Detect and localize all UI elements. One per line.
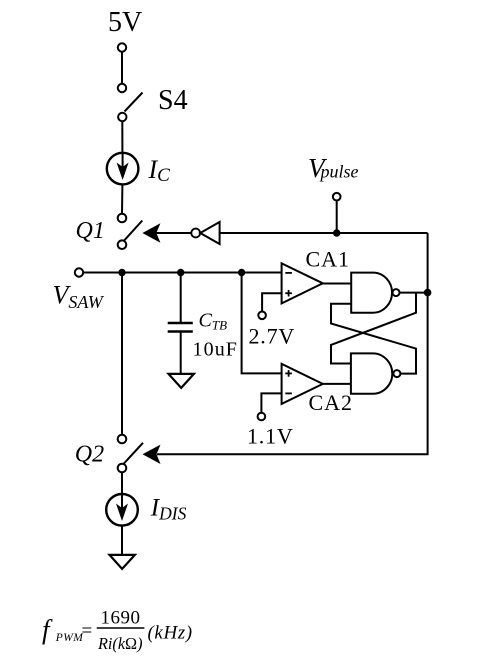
wire VSAW horizontal — [83, 272, 281, 274]
wire CA1 out to NAND1 — [323, 283, 351, 285]
svg-text:Q2: Q2 — [75, 442, 104, 468]
comparator CA2 — [282, 364, 323, 404]
svg-text:pulse: pulse — [319, 162, 359, 182]
junction at CA2 branch — [238, 269, 245, 276]
wire inverter to Vpulse net — [220, 232, 428, 234]
ground capacitor — [169, 374, 194, 388]
terminal 2.7V — [258, 312, 266, 320]
wire crosscouple N2out to N1 bottom input — [331, 304, 416, 374]
wire 5V to S4 — [121, 52, 123, 84]
wire 1.1V to CA2 minus — [261, 393, 281, 412]
Q1 control arrow — [142, 223, 191, 242]
wire NAND1 out — [400, 292, 428, 294]
ground main — [110, 555, 135, 569]
junction latch output — [424, 289, 432, 297]
switch Q2 — [118, 435, 143, 473]
wire Vpulse terminal — [336, 201, 338, 234]
inverter U1 — [191, 222, 219, 244]
comparator CA1 — [282, 263, 323, 303]
svg-text:CA2: CA2 — [309, 390, 354, 415]
switch S4 — [118, 84, 143, 121]
wire CA2 out to NAND2 — [323, 383, 351, 385]
svg-text:1690: 1690 — [101, 608, 141, 629]
nand gate N2 — [351, 353, 401, 393]
wire crosscouple N1out to N2 top input — [331, 293, 416, 364]
current source IC — [107, 153, 139, 185]
svg-text:5V: 5V — [108, 7, 142, 38]
formula fPWM — [42, 608, 193, 654]
wire Q2 to IDIS — [121, 472, 123, 494]
svg-text:10uF: 10uF — [193, 339, 239, 361]
terminal 1.1V — [258, 413, 266, 421]
junction at capacitor — [177, 269, 184, 276]
svg-text:Ri(kΩ): Ri(kΩ) — [97, 634, 143, 653]
terminal VSAW — [75, 268, 83, 276]
junction Vpulse — [333, 229, 340, 236]
wire IDIS to ground — [121, 526, 123, 555]
terminal Vpulse — [333, 193, 341, 201]
svg-text:PWM: PWM — [55, 632, 84, 644]
wire 2.7V to CA1 plus — [262, 293, 282, 311]
fraction bar — [97, 627, 145, 629]
svg-text:(kHz): (kHz) — [148, 623, 193, 644]
svg-text:2.7V: 2.7V — [249, 324, 296, 349]
Q2 control arrow — [143, 445, 161, 464]
wire right vertical feedback — [157, 233, 428, 454]
svg-text:CA1: CA1 — [306, 247, 351, 272]
svg-text:=: = — [82, 621, 93, 642]
nand gate N1 — [351, 273, 399, 313]
junction at Q1/Q2 column — [118, 269, 125, 276]
svg-text:1.1V: 1.1V — [247, 424, 294, 449]
capacitor CTB — [168, 273, 193, 374]
wire S4 to IC — [121, 121, 123, 152]
wire IC to Q1 — [121, 185, 123, 214]
current source IDIS — [106, 494, 138, 526]
svg-text:Q1: Q1 — [76, 218, 105, 244]
switch Q1 — [118, 214, 143, 249]
wire VSAW branch to CA2 — [242, 273, 282, 374]
terminal 5V — [118, 43, 126, 51]
wire VSAW down to Q2 — [121, 273, 123, 435]
svg-text:S4: S4 — [158, 85, 188, 116]
